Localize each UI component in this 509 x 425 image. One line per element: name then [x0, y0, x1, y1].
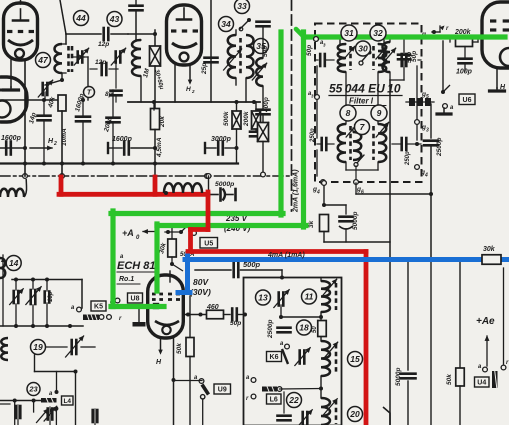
svg-text:2500p: 2500p	[436, 138, 443, 157]
svg-text:20k: 20k	[159, 116, 166, 128]
svg-text:14: 14	[9, 258, 19, 268]
svg-text:4: 4	[424, 173, 428, 179]
svg-text:5000p: 5000p	[352, 212, 359, 230]
svg-text:400p: 400p	[263, 97, 270, 113]
svg-text:5000p: 5000p	[215, 181, 234, 188]
svg-text:2500p: 2500p	[267, 320, 274, 339]
svg-text:12p: 12p	[98, 41, 109, 48]
svg-text:50k: 50k	[446, 374, 453, 385]
svg-text:15: 15	[350, 354, 360, 364]
svg-text:50p: 50p	[230, 320, 241, 327]
svg-text:H: H	[186, 86, 191, 93]
svg-text:4mA (1mA): 4mA (1mA)	[267, 252, 305, 259]
svg-text:43: 43	[109, 14, 120, 24]
svg-text:250p: 250p	[405, 151, 411, 166]
svg-text:250p: 250p	[310, 128, 316, 143]
svg-text:500k: 500k	[223, 111, 230, 126]
svg-text:33: 33	[237, 1, 247, 11]
svg-text:44: 44	[75, 13, 86, 23]
svg-text:K5: K5	[94, 304, 103, 311]
svg-text:+A: +A	[122, 228, 134, 238]
svg-text:L4: L4	[63, 398, 71, 405]
svg-text:20: 20	[349, 409, 360, 419]
svg-text:13: 13	[258, 293, 268, 303]
svg-text:80V: 80V	[193, 277, 209, 287]
svg-text:18: 18	[299, 323, 309, 333]
svg-text:32: 32	[373, 28, 383, 38]
svg-text:8p: 8p	[105, 91, 113, 98]
svg-text:U8: U8	[131, 296, 140, 303]
svg-text:Ro.1: Ro.1	[119, 276, 134, 283]
svg-text:30: 30	[358, 44, 368, 54]
svg-text:30k: 30k	[483, 246, 496, 253]
svg-text:L6: L6	[270, 397, 278, 404]
svg-text:100p: 100p	[456, 69, 473, 76]
svg-text:U5: U5	[204, 240, 213, 247]
svg-text:U9: U9	[218, 387, 227, 394]
svg-text:4: 4	[316, 190, 320, 196]
svg-text:3k: 3k	[308, 220, 315, 228]
svg-text:50: 50	[312, 326, 318, 333]
svg-text:22: 22	[288, 395, 299, 405]
svg-text:2: 2	[53, 141, 57, 147]
svg-text:U4: U4	[477, 380, 486, 387]
svg-text:9: 9	[377, 108, 382, 118]
svg-text:+Ae: +Ae	[476, 316, 495, 327]
svg-text:47: 47	[37, 55, 49, 65]
svg-text:5: 5	[426, 94, 429, 100]
svg-text:200k: 200k	[243, 111, 250, 127]
svg-text:10mA: 10mA	[61, 128, 68, 146]
svg-text:23: 23	[28, 385, 38, 394]
svg-text:2mA (1,6mA): 2mA (1,6mA)	[293, 169, 300, 213]
svg-text:3000p: 3000p	[211, 136, 232, 143]
svg-text:50p: 50p	[262, 46, 269, 57]
svg-text:T: T	[87, 90, 92, 97]
svg-text:1600p: 1600p	[1, 135, 22, 142]
svg-text:25p: 25p	[201, 63, 208, 75]
svg-text:(30V): (30V)	[190, 287, 211, 297]
svg-text:10p: 10p	[48, 291, 54, 302]
svg-text:50p: 50p	[406, 52, 413, 63]
svg-text:11: 11	[305, 292, 314, 302]
svg-text:5000p: 5000p	[395, 368, 402, 386]
svg-text:12p: 12p	[95, 59, 106, 66]
svg-text:Filter I: Filter I	[349, 97, 374, 106]
svg-text:4,5mA: 4,5mA	[156, 137, 163, 158]
svg-text:460: 460	[206, 304, 219, 311]
svg-text:8: 8	[346, 108, 351, 118]
svg-text:U6: U6	[463, 97, 472, 104]
svg-text:34: 34	[221, 19, 231, 29]
svg-text:31: 31	[344, 28, 354, 38]
svg-text:1600p: 1600p	[112, 136, 133, 143]
svg-text:ECH 81: ECH 81	[117, 260, 156, 272]
svg-text:19: 19	[33, 342, 43, 352]
svg-text:50k: 50k	[176, 343, 183, 354]
svg-text:3: 3	[426, 128, 429, 134]
svg-text:50p: 50p	[306, 45, 313, 56]
svg-text:2: 2	[191, 89, 195, 94]
svg-text:K6: K6	[270, 354, 279, 361]
